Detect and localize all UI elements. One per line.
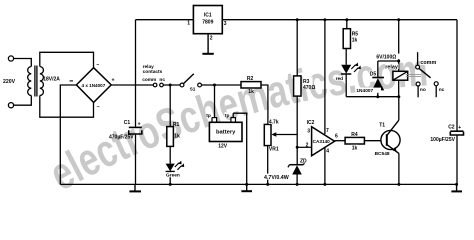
svg-text:comm: comm: [420, 60, 436, 66]
svg-text:nc: nc: [439, 88, 445, 93]
node D5 anode junction: [376, 95, 379, 98]
ground at battery: [241, 184, 252, 191]
wire R2 to VR1 top: [261, 85, 268, 124]
node collector junction: [397, 95, 400, 98]
resistor R2: [241, 76, 261, 95]
svg-text:BC548: BC548: [375, 151, 390, 157]
terminal 220V top: [8, 56, 13, 61]
svg-text:2: 2: [210, 36, 213, 42]
svg-text:7809: 7809: [202, 20, 213, 26]
wire op-amp output: [335, 140, 346, 142]
svg-text:tp: tp: [225, 113, 230, 119]
node R1 branch junction: [169, 84, 172, 87]
svg-text:1: 1: [187, 21, 190, 27]
svg-text:~: ~: [96, 62, 99, 68]
svg-text:nc: nc: [159, 78, 165, 83]
wire secondary bottom to bridge: [40, 96, 94, 118]
ground at IC1: [202, 34, 213, 54]
bridge rectifier 4 x 1N4007: [70, 62, 115, 110]
svg-text:7: 7: [326, 128, 329, 134]
svg-text:~: ~: [97, 105, 100, 111]
wire bridge plus output: [111, 84, 153, 86]
potentiometer VR1: [264, 119, 297, 185]
svg-text:VR1: VR1: [269, 147, 279, 153]
node battery plus junction: [213, 84, 216, 87]
svg-text:1k: 1k: [174, 134, 180, 140]
relay output nc terminal: [434, 82, 445, 98]
node green LED ground junction: [169, 183, 172, 186]
svg-text:4: 4: [326, 148, 329, 154]
wire S1 to R2: [202, 84, 242, 86]
zener diode ZD 4.7V: [264, 158, 308, 184]
wire right vertical: [456, 20, 458, 131]
resistor R5: [343, 20, 358, 49]
relay output comm terminal: [416, 52, 438, 78]
svg-text:3: 3: [307, 128, 310, 134]
svg-text:2: 2: [306, 142, 309, 148]
wire nc to S1: [163, 84, 180, 86]
svg-text:C1: C1: [124, 120, 131, 126]
svg-text:470Ω: 470Ω: [303, 85, 315, 91]
wire primary bottom: [14, 96, 32, 106]
LED red: [335, 49, 361, 97]
wire secondary top to bridge: [40, 52, 94, 68]
switch S1: [180, 74, 201, 93]
IC1 7809 regulator: [187, 6, 227, 42]
svg-text:+: +: [138, 121, 141, 127]
svg-text:Green: Green: [166, 173, 180, 179]
svg-text:T1: T1: [379, 123, 385, 129]
ground at C1: [129, 184, 141, 191]
relay contacts comm-nc in line: [142, 64, 165, 87]
transformer TR1: [28, 66, 44, 97]
svg-text:C2: C2: [448, 125, 455, 131]
svg-text:1k: 1k: [248, 89, 254, 95]
svg-text:battery: battery: [216, 130, 236, 136]
svg-text:18V/2A: 18V/2A: [43, 76, 60, 82]
node pin2 junction: [296, 146, 299, 149]
wire R4 to base: [364, 140, 386, 142]
resistor R3: [294, 20, 316, 96]
svg-text:4.7V/0.4W: 4.7V/0.4W: [264, 175, 289, 181]
svg-text:1N4007: 1N4007: [356, 88, 373, 94]
svg-text:S1: S1: [190, 87, 196, 93]
wire red LED / D5 anode to collector node: [346, 96, 399, 98]
svg-text:R1: R1: [173, 122, 180, 128]
svg-text:12V: 12V: [218, 144, 228, 150]
svg-text:3: 3: [224, 21, 227, 27]
watermark electroschematics.com: [41, 43, 430, 200]
svg-text:red: red: [336, 76, 344, 82]
capacitor C2: [430, 125, 464, 144]
svg-text:+: +: [112, 78, 115, 84]
svg-text:470µF/25V: 470µF/25V: [109, 135, 134, 141]
wire primary top: [14, 59, 32, 67]
wire top rail right segment: [222, 19, 457, 21]
relay coil 6V/100R: [376, 20, 408, 97]
svg-text:contacts: contacts: [143, 69, 163, 75]
op-amp IC2 CA3140: [306, 20, 338, 185]
svg-text:comm: comm: [142, 78, 156, 83]
svg-text:100µF/25V: 100µF/25V: [430, 137, 455, 143]
svg-text:+: +: [458, 125, 461, 131]
resistor R1: [167, 85, 180, 146]
svg-text:R4: R4: [351, 132, 358, 138]
relay output no terminal: [416, 82, 426, 97]
svg-text:1k: 1k: [352, 145, 358, 151]
svg-text:IC1: IC1: [204, 12, 212, 18]
resistor R4: [345, 132, 364, 152]
wire bottom ground rail: [60, 183, 456, 185]
svg-text:D5: D5: [370, 71, 377, 77]
svg-text:6: 6: [335, 134, 338, 140]
svg-text:IC2: IC2: [307, 120, 315, 126]
capacitor C1: [109, 120, 142, 140]
node D5 cathode junction: [397, 60, 400, 63]
wire bridge minus output: [60, 85, 76, 184]
wire R3 to zener / pin2 node: [296, 96, 298, 165]
svg-text:ZD: ZD: [300, 159, 307, 165]
relay armature linkage: [406, 75, 421, 77]
wire top rail left segment: [136, 19, 194, 21]
svg-text:no: no: [420, 88, 426, 93]
diode D5 1N4007: [356, 61, 399, 97]
svg-text:220V: 220V: [3, 79, 16, 85]
svg-text:6V/100Ω: 6V/100Ω: [376, 55, 396, 61]
svg-text:4.7k: 4.7k: [269, 119, 279, 125]
svg-text:1k: 1k: [352, 38, 358, 44]
svg-text:R2: R2: [247, 76, 254, 82]
svg-text:CA3140: CA3140: [313, 139, 331, 144]
ground at right end: [451, 184, 462, 191]
battery 12V: [206, 85, 247, 184]
svg-text:tp: tp: [206, 113, 211, 119]
svg-text:4 x 1N4007: 4 x 1N4007: [82, 83, 106, 88]
terminal 220V bottom: [8, 103, 13, 108]
svg-text:relay: relay: [385, 64, 398, 70]
wire left vertical unregulated DC: [135, 20, 137, 127]
LED green: [166, 146, 185, 184]
transistor T1 BC548: [374, 97, 400, 185]
wire pin2: [297, 146, 311, 148]
